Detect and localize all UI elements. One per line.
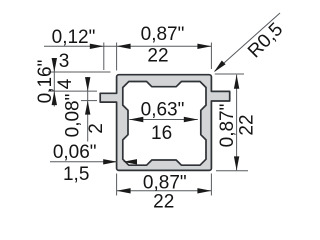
svg-text:0,87": 0,87" <box>143 172 187 193</box>
arrowhead dim 16 left (points left at left bump face) <box>129 117 143 122</box>
svg-text:0,06": 0,06" <box>53 142 97 163</box>
arrowhead dim 22 top left (points left at left face) <box>117 44 131 49</box>
dimension line 0,08"/2 vertical <box>87 77 89 142</box>
svg-text:0,87": 0,87" <box>141 24 185 45</box>
dimension line 0,63"/16 inner width <box>129 119 198 121</box>
extension line profile top edge (for dim 4) <box>48 71 111 73</box>
arrowhead dim 3 left (points right at fin tip) <box>90 44 104 49</box>
svg-text:2: 2 <box>86 123 107 134</box>
svg-text:0,12": 0,12" <box>52 27 96 48</box>
arrowhead dim 4 lower (points up at fin top) <box>52 91 57 105</box>
extension line fin bottom edge <box>81 100 97 102</box>
profile body: 22x22 square tube with left/right fins, chamfered inner cavity with four trapezoid bumps <box>100 75 230 171</box>
svg-text:0,08": 0,08" <box>63 94 84 138</box>
svg-text:16: 16 <box>151 123 172 144</box>
svg-text:0,87": 0,87" <box>217 104 238 148</box>
svg-text:R0,5: R0,5 <box>244 19 287 62</box>
arrowhead dim 4 upper (points down at top edge) <box>52 58 57 72</box>
arrowhead R0,5 leader (points at top-right corner) <box>214 61 226 73</box>
dimension line top (shared by 0,12"/3 and 0,87"/22) <box>44 45 211 47</box>
extension line profile left face <box>116 43 118 71</box>
svg-text:22: 22 <box>147 45 168 66</box>
svg-text:0,63": 0,63" <box>141 99 185 120</box>
arrowhead dim 16 right (points right at right bump face) <box>184 117 198 122</box>
svg-text:22: 22 <box>237 114 258 135</box>
svg-text:22: 22 <box>153 192 174 213</box>
extension line fin top edge <box>48 90 97 92</box>
arrowhead dim 1,5 outer (points right at outer wall face) <box>103 159 117 164</box>
svg-text:3: 3 <box>59 51 70 72</box>
dimension line right 0,87"/22 vertical <box>236 75 238 171</box>
svg-text:4: 4 <box>55 78 76 89</box>
extension line bottom right <box>210 174 212 196</box>
extension line right bottom edge <box>216 170 248 172</box>
arrowhead dim 1,5 inner (points left at inner wall face) <box>123 159 137 164</box>
arrowhead dim 2 lower (points up at fin bottom) <box>85 101 90 115</box>
extension line bottom left <box>116 174 118 196</box>
svg-text:0,16": 0,16" <box>35 60 56 104</box>
leader line wall thickness 0,06"/1,5 <box>50 161 117 163</box>
arrowhead dim 22 top right (points right at right face) <box>197 44 211 49</box>
extension line profile right face <box>210 43 212 70</box>
dimension line bottom 0,87"/22 <box>117 190 212 192</box>
arrowhead bottom dim 22 right (points right) <box>197 188 211 193</box>
svg-text:1,5: 1,5 <box>63 164 89 185</box>
arrowhead right dim 22 bottom (points down at bottom edge) <box>234 156 239 170</box>
arrowhead dim 2 upper (points down at fin top) <box>85 77 90 91</box>
leader line R0,5 <box>215 13 280 71</box>
extension line left fin tip <box>103 43 105 71</box>
arrowhead bottom dim 22 left (points left) <box>117 188 131 193</box>
arrowhead right dim 22 top (points up at top edge) <box>234 75 239 89</box>
dimension line 0,16"/4 vertical <box>53 59 55 107</box>
extension line right top edge <box>215 73 244 75</box>
